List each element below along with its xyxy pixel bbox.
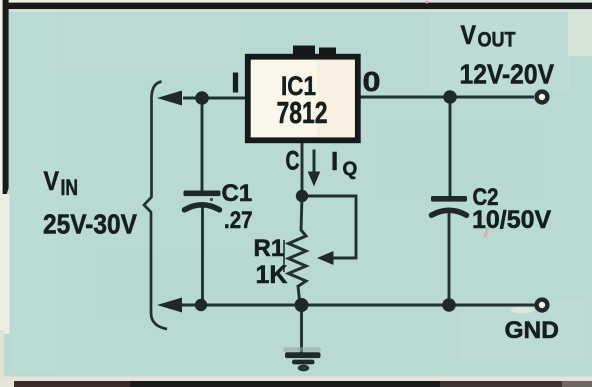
svg-text:12V-20V: 12V-20V [460, 58, 555, 89]
svg-text:Q: Q [343, 159, 358, 180]
svg-text:0: 0 [363, 66, 381, 97]
svg-text:.27: .27 [224, 207, 253, 234]
svg-text:OUT: OUT [478, 29, 516, 52]
svg-text:R1: R1 [254, 235, 285, 262]
svg-text:C: C [286, 146, 300, 176]
svg-text:V: V [44, 166, 60, 196]
svg-text:C1: C1 [222, 180, 253, 207]
svg-text:I: I [232, 67, 240, 98]
svg-text:25V-30V: 25V-30V [43, 209, 137, 240]
svg-text:1K: 1K [256, 261, 288, 289]
svg-text:GND: GND [505, 317, 559, 344]
svg-text:IN: IN [61, 175, 79, 200]
svg-text:V: V [461, 20, 477, 50]
svg-text:7812: 7812 [277, 95, 328, 130]
svg-text:10/50V: 10/50V [472, 206, 552, 234]
svg-text:I: I [331, 146, 338, 176]
